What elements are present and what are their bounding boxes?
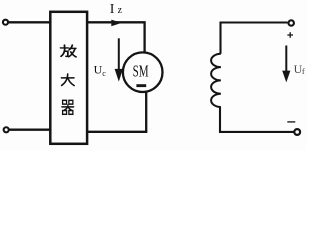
- character 器 (amplifier label part 3): [62, 100, 74, 114]
- input terminal top-left: [3, 20, 8, 25]
- wire: motor SM bottom lead: [145, 92, 147, 132]
- plus polarity mark top-right: [287, 32, 293, 38]
- motor SM circle: [123, 52, 163, 92]
- wire: bottom return to amplifier: [88, 131, 147, 133]
- inductor L field winding: [211, 54, 221, 107]
- character 放 (amplifier label part 1): [61, 45, 77, 57]
- current arrow Iz head: [111, 20, 121, 27]
- wire: amplifier output top to motor (with corner): [88, 22, 145, 53]
- wire: right loop top: [221, 23, 288, 54]
- voltage arrow Uc: [115, 38, 123, 81]
- output terminal top-right: [289, 20, 294, 25]
- output terminal bottom-right: [294, 129, 300, 135]
- wire: bottom-left terminal to amplifier: [10, 129, 51, 131]
- svg-text:SM: SM: [133, 61, 149, 80]
- wire: top-left terminal to amplifier: [9, 21, 50, 23]
- wire: right loop bottom: [220, 107, 294, 132]
- character 大 (amplifier label part 2): [61, 74, 74, 86]
- minus polarity mark bottom-right: [287, 121, 295, 123]
- motor polarity bar (minus inside circle): [136, 84, 146, 87]
- voltage arrow Uf: [282, 46, 290, 83]
- amplifier box: [50, 12, 87, 144]
- input terminal bottom-left: [4, 127, 9, 132]
